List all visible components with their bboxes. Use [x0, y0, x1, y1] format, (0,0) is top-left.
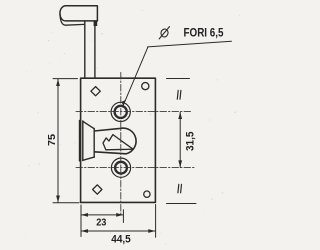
svg-text:75: 75	[47, 134, 58, 146]
dimension 75 top arrow	[56, 79, 60, 86]
hook stem right edge	[94, 21, 96, 78]
dimension 31,5 bottom arrow	[178, 160, 182, 167]
leader line to hole	[123, 47, 148, 106]
latch flange left edge	[78, 120, 80, 161]
dimension 75 bottom arrow	[56, 196, 60, 203]
hook stem dark tab	[94, 21, 98, 26]
parallel symbol bottom	[178, 184, 182, 193]
leader arrowhead	[122, 100, 126, 106]
dimension 23 left arrow	[81, 213, 88, 217]
extension line 23 right	[122, 210, 124, 223]
extension line bottom left shared	[80, 205, 82, 237]
diamond upper left	[91, 87, 100, 96]
extension line top left	[53, 78, 78, 80]
extension line bottom right	[155, 205, 157, 238]
dimension 31,5 top arrow	[178, 112, 182, 119]
top hole inner circle	[115, 106, 127, 118]
top hole outer circle	[111, 102, 130, 121]
leader landing line under text	[148, 41, 232, 47]
diameter symbol	[159, 27, 169, 39]
latch trapezoid bottom slope	[83, 157, 94, 160]
latch spring zigzag	[103, 135, 133, 150]
svg-text:FORI 6,5: FORI 6,5	[184, 28, 225, 40]
bottom hole outer circle	[111, 158, 130, 177]
dimension 23 line	[81, 214, 123, 216]
latch flange inner edge	[82, 121, 84, 161]
dimension 44,5 left arrow	[81, 229, 88, 233]
dimension 44,5 right arrow	[148, 229, 155, 233]
small circle top right	[142, 83, 149, 90]
centerline vertical through holes	[120, 73, 122, 216]
latch bulb (thumb knob)	[94, 128, 136, 154]
paper background	[0, 0, 250, 250]
dimension 31,5 line	[179, 112, 181, 167]
svg-text:44,5: 44,5	[111, 234, 131, 246]
parallel symbol top	[177, 90, 181, 99]
dimension 75 line	[57, 79, 59, 203]
latch trapezoid top slope	[83, 121, 94, 128]
hook stem left edge	[84, 21, 86, 78]
diamond lower left	[93, 185, 102, 194]
small circle bottom right	[144, 191, 150, 197]
hook lip (rolled sheet edge under bar)	[60, 14, 85, 25]
hook bar (top flag with rounded left end)	[60, 6, 97, 21]
plate outline	[81, 78, 156, 202]
bottom hole inner circle	[115, 162, 127, 174]
dimension 23 right arrow	[116, 213, 123, 217]
scan speckle noise	[25, 10, 241, 245]
centerline horizontal top hole	[76, 111, 192, 113]
dimension 44,5 line	[81, 230, 155, 232]
centerline horizontal bottom hole	[76, 167, 196, 169]
latch fold line	[93, 128, 95, 157]
parallel mark line top right	[167, 78, 190, 80]
svg-text:31,5: 31,5	[185, 132, 197, 152]
extension line bottom left	[53, 202, 79, 204]
parallel mark line bottom right	[167, 203, 197, 205]
